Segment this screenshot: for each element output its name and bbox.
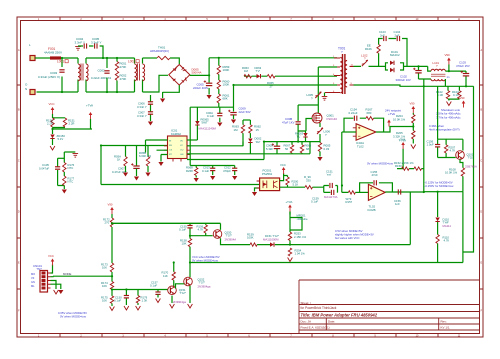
resistor R102 bbox=[446, 91, 449, 99]
wire aux vertical bbox=[263, 142, 265, 160]
wire startup top bbox=[243, 119, 250, 121]
svg-text:4.7K: 4.7K bbox=[198, 228, 204, 232]
wire output return long vertical bbox=[423, 79, 425, 192]
wire IC01 bottom caps row bbox=[190, 166, 235, 178]
svg-text:L002: L002 bbox=[128, 60, 135, 64]
wire TVA stub bbox=[289, 212, 291, 215]
supply arrow +TVA bbox=[89, 112, 93, 119]
mosfet Q001 bbox=[312, 113, 322, 123]
svg-text:3.3nF Y: 3.3nF Y bbox=[75, 41, 85, 45]
supply arrow VCC opto bbox=[282, 167, 286, 174]
wire feedback loop left vertical bbox=[409, 192, 411, 245]
title block outline bbox=[299, 280, 480, 334]
svg-text:Fixed E.A. 6023(5/21): Fixed E.A. 6023(5/21) bbox=[301, 326, 330, 330]
svg-text:GN: GN bbox=[180, 154, 184, 156]
transformer T001 primary coil bbox=[340, 58, 342, 93]
svg-text:C002: C002 bbox=[98, 69, 106, 73]
wire C003 leads bbox=[61, 58, 63, 92]
capacitor C009 bbox=[228, 110, 237, 115]
svg-text:470pF: 470pF bbox=[223, 169, 231, 173]
transistor Q101 bbox=[456, 151, 465, 160]
resistor R052 bbox=[115, 71, 118, 80]
wire opto collector bbox=[280, 173, 284, 180]
svg-text:1K: 1K bbox=[117, 158, 121, 162]
supply arrow VCC bbox=[51, 107, 55, 114]
resistor R151 bbox=[63, 118, 66, 127]
wire R158 to Q152 collector bbox=[189, 247, 191, 277]
ground opto cathode bbox=[252, 192, 257, 196]
wire IC01 pin to D002 bbox=[187, 153, 250, 155]
wire C105 branch top bbox=[58, 157, 65, 159]
ic IC01 box bbox=[168, 136, 188, 159]
svg-text:+TVA: +TVA bbox=[399, 138, 406, 142]
wire +TVA rail to IC01 bbox=[101, 145, 168, 147]
diode D101b bbox=[390, 68, 394, 72]
svg-text:V90: V90 bbox=[410, 101, 415, 105]
wire Y-cap branch bbox=[78, 46, 103, 58]
optocoupler PC001 body bbox=[260, 178, 280, 191]
svg-text:0V when MODE=low: 0V when MODE=low bbox=[367, 162, 394, 166]
bridge rectifier D005 bbox=[169, 65, 190, 86]
svg-text:'SWT': 'SWT' bbox=[201, 121, 209, 125]
svg-text:68: 68 bbox=[306, 147, 310, 151]
svg-text:'ext': 'ext' bbox=[327, 173, 332, 177]
wire startup node rail bbox=[190, 106, 233, 108]
svg-text:4.7K: 4.7K bbox=[450, 149, 456, 153]
svg-text:0.33uF (250V X): 0.33uF (250V X) bbox=[38, 75, 60, 79]
wire TH01 to bridge top bbox=[170, 58, 179, 64]
wire R157 to IC02B input bbox=[355, 191, 368, 193]
svg-text:0.33: 0.33 bbox=[324, 147, 330, 151]
svg-text:KV 1/1: KV 1/1 bbox=[441, 326, 450, 330]
wire L002 to TH01 bbox=[143, 57, 158, 59]
capacitor C005 (Y) bbox=[95, 43, 97, 48]
svg-text:0.047uF: 0.047uF bbox=[39, 167, 50, 171]
wire top rail between chokes bbox=[86, 57, 135, 59]
optocoupler left pin stubs bbox=[257, 181, 260, 188]
fuse F001 bbox=[50, 56, 61, 59]
wire terminal N to choke L001 bbox=[37, 91, 79, 93]
resistor R167 bbox=[366, 117, 374, 120]
capacitor C007 bbox=[131, 163, 140, 168]
resistor R158 bbox=[188, 239, 191, 247]
wire R108 to junction bbox=[462, 176, 464, 191]
wire R005 to ground bbox=[319, 152, 321, 157]
wire aux rail left part bbox=[244, 75, 337, 77]
svg-text:PS2561: PS2561 bbox=[262, 172, 273, 176]
connector CN101 pins bbox=[42, 272, 51, 289]
wire IC01 left pins bbox=[146, 140, 168, 162]
svg-text:220uF 400V: 220uF 400V bbox=[193, 86, 208, 90]
wire SWT branch lower bbox=[196, 126, 198, 141]
wire Q101 collector bbox=[460, 159, 463, 168]
ground C009 bbox=[231, 120, 236, 124]
capacitor C105 bbox=[55, 167, 60, 169]
wire L101 bottom winding out bbox=[444, 79, 446, 86]
wire chain top bbox=[218, 58, 220, 66]
resistor R110 bbox=[436, 235, 439, 244]
svg-text:VCC: VCC bbox=[280, 163, 286, 167]
resistor R207 bbox=[444, 145, 447, 153]
resistor R05B bbox=[146, 157, 149, 167]
capacitor C155 fb bbox=[374, 180, 376, 185]
wire IC02A output to setpoint divider bbox=[376, 127, 413, 133]
ground sense resistors bbox=[447, 102, 452, 106]
svg-text:470K: 470K bbox=[120, 65, 127, 69]
wire B- to primary ground bbox=[163, 85, 180, 92]
wire B+ to C005 node bbox=[190, 74, 209, 76]
diode D0065 bbox=[195, 121, 199, 125]
capacitor C157 bbox=[155, 292, 160, 294]
ic IC01 pin names bbox=[169, 140, 184, 156]
wire R150 to zener bbox=[52, 129, 54, 134]
resistor R157 bbox=[348, 191, 355, 194]
svg-text:680: 680 bbox=[367, 111, 372, 115]
ground CN101 pin3 bbox=[54, 290, 59, 294]
ground C150 bbox=[124, 306, 129, 310]
svg-text:MA111?VA: MA111?VA bbox=[324, 195, 338, 199]
ground IC01 pin bbox=[158, 162, 163, 166]
resistor R103 bbox=[458, 91, 461, 99]
earth ground for Y caps bbox=[75, 47, 81, 51]
wire snubber lower leads bbox=[298, 124, 305, 141]
wire MODE rail bbox=[53, 275, 112, 277]
svg-text:HPA4R025[3C]: HPA4R025[3C] bbox=[150, 49, 169, 53]
op-amp IC02B pins marks bbox=[370, 187, 372, 197]
svg-text:2nF: 2nF bbox=[380, 33, 385, 37]
supply arrow V90 mid bbox=[462, 101, 466, 108]
svg-text:R150: R150 bbox=[395, 164, 402, 168]
capacitor C008 bbox=[272, 143, 281, 148]
wire C105 top bbox=[64, 151, 75, 153]
svg-text:1M: 1M bbox=[234, 128, 239, 132]
svg-text:2.15K 1%: 2.15K 1% bbox=[294, 235, 307, 239]
svg-text:NTC: NTC bbox=[68, 180, 74, 184]
svg-text:0.22uF: 0.22uF bbox=[349, 111, 358, 115]
capacitor C00B bbox=[296, 122, 301, 124]
transformer L002 left coil bbox=[135, 64, 137, 81]
earth at C105 network bbox=[73, 154, 79, 158]
wire C005 bulk leads bbox=[208, 75, 210, 94]
wire rail to R170 bbox=[173, 263, 175, 272]
svg-text:'T02': 'T02' bbox=[468, 156, 474, 160]
capacitor C102 bbox=[413, 68, 422, 73]
svg-text:0.1uF: 0.1uF bbox=[114, 299, 121, 303]
resistor R051 bbox=[115, 62, 118, 71]
svg-text:0V when MODE=low: 0V when MODE=low bbox=[192, 259, 219, 263]
resistor R062 bbox=[249, 125, 252, 134]
resistor R254 bbox=[288, 248, 291, 256]
svg-text:V90: V90 bbox=[445, 53, 451, 57]
wire bottom rail between chokes bbox=[86, 91, 135, 93]
supply arrow +TVA mid bbox=[288, 205, 292, 212]
transformer L001 right coil bbox=[86, 64, 88, 81]
svg-text:47nF: 47nF bbox=[372, 173, 379, 177]
zener ZD150 bbox=[50, 135, 54, 139]
svg-text:FSK140: FSK140 bbox=[327, 117, 338, 121]
capacitor C103 snub bbox=[384, 36, 386, 41]
wire IC02A input bbox=[342, 131, 356, 133]
svg-text:MAX111240M: MAX111240M bbox=[199, 127, 217, 131]
ground Q001 source bbox=[317, 157, 322, 161]
wire pin 2 to drain branch bbox=[318, 66, 337, 68]
transformer T001 core bbox=[343, 54, 345, 94]
svg-text:5.3kF: 5.3kF bbox=[266, 147, 273, 151]
transistor Q150 bbox=[213, 230, 222, 239]
svg-text:N: N bbox=[25, 87, 27, 91]
svg-text:3.3nF Y: 3.3nF Y bbox=[91, 41, 101, 45]
capacitor C104 snub bbox=[397, 36, 399, 41]
inductor L101 bottom winding bbox=[431, 79, 445, 81]
supply arrow +TVA small bbox=[387, 120, 391, 127]
op-amp IC02B bbox=[368, 184, 385, 200]
transformer T001 pin stubs bbox=[334, 58, 354, 93]
svg-text:Sheet: /: Sheet: / bbox=[301, 301, 312, 305]
svg-text:MA111: MA111 bbox=[443, 224, 452, 228]
wire chain node to Q150 area bbox=[112, 222, 221, 224]
ferrite bead L006 bbox=[317, 128, 323, 134]
resistor R204 bbox=[412, 115, 415, 124]
resistor R200 bbox=[286, 177, 289, 185]
resistor R005 bbox=[318, 143, 321, 152]
wire CN101 pin3 to ground bbox=[51, 281, 57, 290]
ground R175 bbox=[110, 307, 115, 311]
wire R172 to R173 bbox=[111, 227, 113, 263]
wire divider tap to Q151 bbox=[112, 289, 168, 291]
resistor R176 bbox=[63, 163, 66, 173]
svg-text:ML: ML bbox=[31, 284, 35, 288]
svg-text:for PowerBrick ThinkJack: for PowerBrick ThinkJack bbox=[301, 306, 337, 310]
svg-text:2.2R: 2.2R bbox=[47, 122, 53, 126]
wire CN101 pin2 to MODE bbox=[51, 275, 54, 278]
ground R205 bbox=[411, 145, 416, 149]
wire to Q101 branch bbox=[438, 191, 463, 193]
wire aux supply top bbox=[264, 141, 320, 143]
svg-text:3.3nF Y: 3.3nF Y bbox=[137, 105, 147, 109]
wire Q150 emitter to R159 bbox=[221, 238, 251, 244]
wire IC01 pin long bbox=[187, 159, 264, 161]
svg-text:500V4A: 500V4A bbox=[192, 71, 202, 75]
resistor R152 bbox=[402, 167, 410, 170]
wire snubber top rail bbox=[298, 104, 318, 106]
svg-text:68K: 68K bbox=[223, 97, 228, 101]
ground R254 bbox=[288, 258, 293, 262]
ground C105 network bbox=[62, 190, 67, 194]
svg-text:VD: VD bbox=[180, 140, 183, 142]
ground C012 bbox=[232, 176, 237, 180]
svg-text:0V when MODE=low: 0V when MODE=low bbox=[60, 315, 87, 319]
svg-text:1.04 1%: 1.04 1% bbox=[295, 252, 306, 256]
resistor R060 bbox=[217, 80, 220, 89]
wire L002 stubs bbox=[135, 58, 143, 92]
svg-text:2.2R: 2.2R bbox=[69, 122, 75, 126]
wire terminal L to fuse bbox=[35, 57, 50, 59]
resistor R172 bbox=[110, 218, 113, 227]
svg-text:2N3904ga: 2N3904ga bbox=[173, 300, 186, 304]
wire R051 R052 leads bbox=[116, 58, 118, 92]
svg-text:VCC: VCC bbox=[48, 254, 54, 258]
wire Q152 emitter bbox=[189, 286, 191, 303]
svg-text:5.1V: 5.1V bbox=[58, 137, 64, 141]
wire IC01 pin to startup chain bbox=[187, 145, 243, 147]
op-amp IC02A bbox=[356, 124, 376, 141]
capacitor C159 bbox=[331, 190, 333, 195]
wire IC02A input vertical down bbox=[341, 132, 343, 192]
svg-text:0.1uF: 0.1uF bbox=[202, 169, 209, 173]
resistor R061 bbox=[217, 94, 220, 103]
svg-text:'TG?': 'TG?' bbox=[180, 291, 187, 295]
svg-text:10K: 10K bbox=[182, 242, 187, 246]
diode D101a bbox=[390, 61, 394, 65]
wire R061 down to startup node bbox=[218, 103, 220, 107]
supply arrow V90 chain2 bbox=[110, 207, 114, 214]
ic IC01 pin stubs bbox=[164, 140, 191, 162]
optocoupler PC001 innards bbox=[263, 181, 278, 189]
wire left box vertical bbox=[100, 146, 102, 185]
ground Q152 bbox=[188, 304, 193, 308]
wire C002 leads bbox=[106, 58, 108, 92]
svg-text:NTC: NTC bbox=[68, 166, 74, 170]
transformer T001 secondary coil bbox=[345, 61, 347, 87]
wire C00A branch bbox=[219, 107, 221, 122]
resistor R253 bbox=[288, 232, 291, 241]
svg-text:6.04K 1%: 6.04K 1% bbox=[139, 154, 152, 158]
diode D002 bbox=[248, 139, 252, 143]
wire opto emitter path bbox=[280, 187, 349, 192]
capacitor C007y bbox=[148, 112, 153, 114]
diode D110 bbox=[435, 218, 439, 222]
svg-text:10K: 10K bbox=[102, 284, 107, 288]
svg-text:D: D bbox=[480, 211, 482, 214]
svg-text:R157: R157 bbox=[346, 200, 353, 204]
inductor L101 top winding bbox=[431, 69, 445, 71]
svg-text:GN: GN bbox=[31, 280, 35, 284]
svg-text:C: C bbox=[18, 160, 20, 163]
svg-text:1.0uF: 1.0uF bbox=[427, 143, 434, 147]
ferrite bead L102 bbox=[362, 60, 368, 66]
wire R200 bottom bbox=[287, 185, 289, 187]
transistor Q151 bbox=[168, 286, 177, 295]
resistor R199 bbox=[305, 186, 313, 189]
capacitor C013 bbox=[210, 168, 215, 170]
svg-text:MODE: MODE bbox=[63, 272, 72, 276]
wire R152 to +TVA bbox=[402, 149, 404, 169]
wire fuse to choke L001 bbox=[61, 57, 78, 59]
wire C008 cluster bbox=[250, 142, 310, 154]
wire R062 to D002 bbox=[249, 133, 251, 138]
wire RC snubber loop bbox=[379, 39, 407, 67]
svg-text:TL02: TL02 bbox=[357, 144, 364, 148]
resistor R059 bbox=[217, 66, 220, 75]
wire IC02B feedback bbox=[360, 183, 393, 193]
transformer L002 core bbox=[138, 64, 140, 81]
wire B+ riser bbox=[208, 58, 210, 76]
wire zener to ground bbox=[52, 139, 54, 145]
capacitor C006 bbox=[148, 102, 153, 104]
svg-text:3.7Va for 400mAdc: 3.7Va for 400mAdc bbox=[436, 115, 461, 119]
svg-text:2nF: 2nF bbox=[395, 33, 400, 37]
svg-text:V90: V90 bbox=[108, 203, 113, 207]
wire snubber cap lead bbox=[297, 105, 299, 121]
op-amp IC02A pins bbox=[353, 127, 379, 137]
ground R05A bbox=[123, 173, 128, 177]
wire Q150 collector bbox=[220, 223, 222, 229]
wire R205 down bbox=[412, 139, 414, 144]
capacitor C003 bbox=[59, 70, 64, 72]
wire D110 top bbox=[437, 192, 439, 217]
wire mid box bbox=[290, 212, 302, 233]
wire R176 to R177 bbox=[63, 172, 65, 176]
svg-text:MA111000M: MA111000M bbox=[263, 238, 279, 242]
svg-text:330: 330 bbox=[306, 178, 311, 182]
wire Q151 emitter bbox=[171, 296, 173, 303]
svg-text:'LL': 'LL' bbox=[297, 135, 302, 139]
wire R05A branch bbox=[126, 146, 149, 166]
capacitor C155b bbox=[187, 226, 192, 228]
svg-text:10K: 10K bbox=[102, 266, 107, 270]
wire R059 to R060 bbox=[218, 75, 220, 81]
wire feedback line to loop bbox=[257, 244, 410, 246]
wire V90 to R172 bbox=[111, 214, 113, 218]
transformer L001 core bbox=[81, 64, 83, 81]
resistor R106 bbox=[377, 45, 380, 54]
wire upper cap branch bbox=[324, 186, 338, 193]
ferrite bead L005 bbox=[315, 92, 321, 98]
resistor R156 bbox=[204, 225, 207, 233]
svg-text:+TVA: +TVA bbox=[286, 200, 293, 204]
resistor R159 bbox=[250, 243, 257, 246]
wire V90 to R204 bbox=[412, 113, 414, 115]
svg-text:470K: 470K bbox=[120, 77, 127, 81]
ground Q151 bbox=[170, 304, 175, 308]
wire R200 hang bbox=[284, 176, 288, 178]
svg-text:L001: L001 bbox=[57, 60, 64, 64]
capacitor C103 out bbox=[461, 71, 470, 76]
wire Q101 branch top bbox=[438, 139, 463, 157]
ground primary earth bbox=[160, 99, 165, 103]
wire right loop vertical bbox=[462, 192, 464, 263]
wire R177 to ground bbox=[63, 186, 65, 190]
resistor R179 bbox=[136, 296, 139, 304]
wire Q150 top rail bbox=[112, 222, 221, 224]
svg-text:470uF 25V: 470uF 25V bbox=[456, 64, 470, 68]
wire R204 to R205 bbox=[412, 123, 414, 131]
svg-text:4.7K: 4.7K bbox=[444, 239, 450, 243]
svg-text:D: D bbox=[18, 211, 20, 214]
capacitor C151 bbox=[330, 183, 332, 188]
svg-text:+TVA: +TVA bbox=[86, 104, 93, 108]
wire secondary top bbox=[354, 65, 386, 67]
wire R063 top lead bbox=[242, 120, 244, 125]
svg-text:Doc: JA: Doc: JA bbox=[301, 319, 312, 323]
svg-text:+TVA: +TVA bbox=[388, 112, 395, 116]
svg-text:15: 15 bbox=[256, 128, 260, 132]
wire CN101 pin1 to VCC bbox=[51, 265, 53, 274]
wire to R005 bbox=[319, 134, 321, 143]
wire C157 to ground bbox=[157, 294, 159, 297]
diode D151 bbox=[270, 242, 274, 246]
wire C102 leads bbox=[419, 66, 432, 79]
resistor R174 bbox=[110, 282, 113, 290]
ground R068 bbox=[194, 178, 199, 182]
supply arrow +TVA right bbox=[401, 142, 405, 149]
terminal pad L bbox=[30, 56, 35, 61]
svg-text:Rev:: Rev: bbox=[441, 319, 447, 323]
wire step to L101 bbox=[428, 66, 431, 71]
wire pin 2 down to Q001 drain bbox=[317, 67, 319, 114]
wire junction to D110 bbox=[424, 191, 438, 193]
svg-text:4A/6AB 250V: 4A/6AB 250V bbox=[44, 51, 62, 55]
